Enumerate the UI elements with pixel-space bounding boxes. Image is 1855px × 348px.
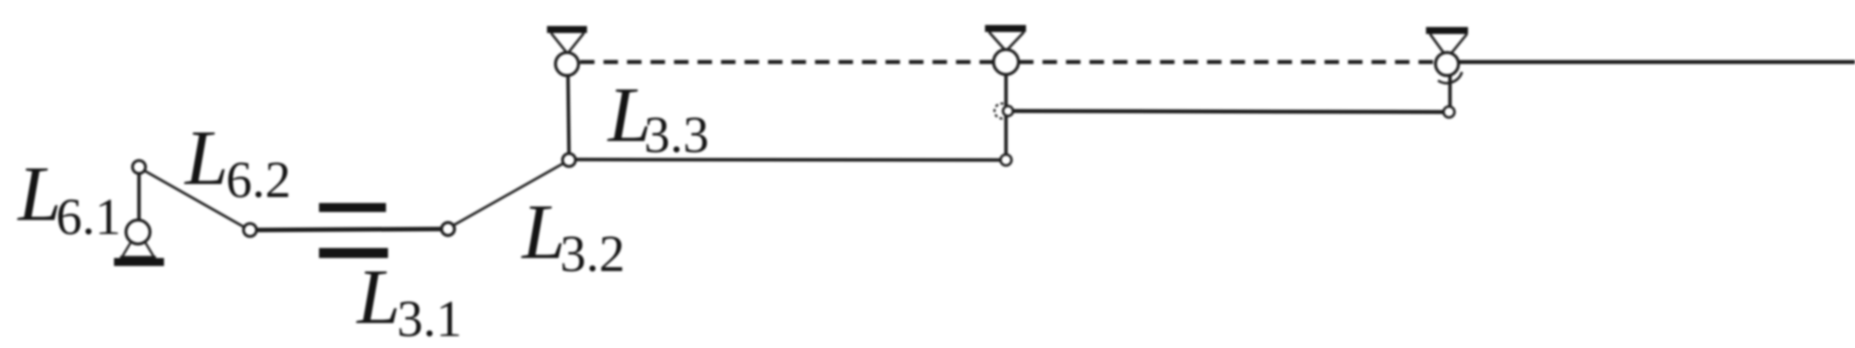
svg-text:3.2: 3.2 xyxy=(560,226,625,283)
svg-text:L: L xyxy=(17,150,61,237)
svg-text:L: L xyxy=(184,114,228,201)
svg-text:3.1: 3.1 xyxy=(397,291,462,348)
svg-text:L: L xyxy=(356,253,400,340)
svg-text:6.2: 6.2 xyxy=(226,152,291,209)
svg-text:3.3: 3.3 xyxy=(644,107,709,164)
svg-text:6.1: 6.1 xyxy=(56,189,121,246)
svg-text:L: L xyxy=(521,188,565,275)
